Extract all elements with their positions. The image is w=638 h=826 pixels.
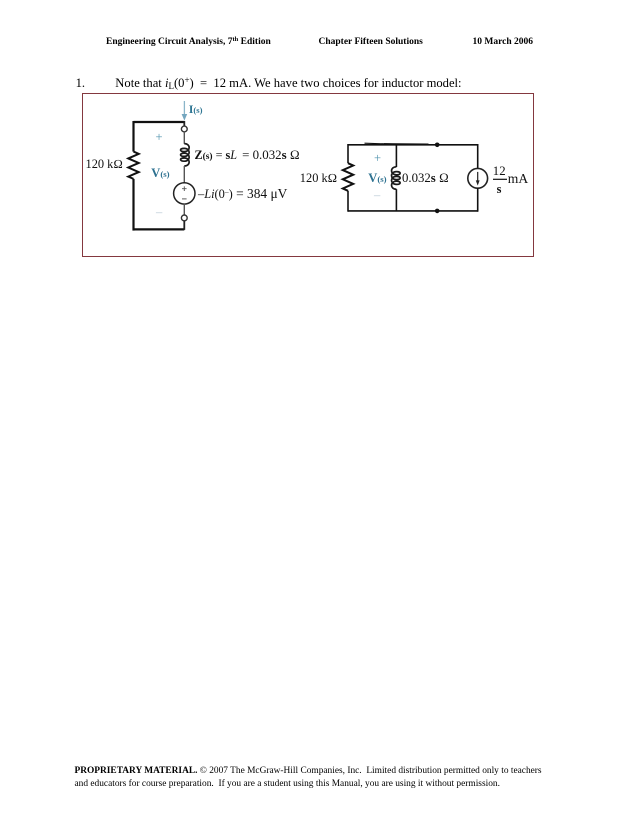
- resistor R 120k (right circuit): [343, 163, 353, 191]
- left circuit: top wire: [134, 121, 185, 123]
- problem statement: [115, 76, 461, 91]
- label V(s) (left circuit): [151, 167, 169, 180]
- inductor Z(s)=sL (left circuit): [181, 144, 190, 166]
- right circuit: middle branch upper wire: [395, 145, 397, 167]
- footer line 1: [75, 767, 542, 776]
- voltage source -Li(0-) (left circuit): [174, 183, 195, 204]
- inductor 0.032s (right circuit): [392, 167, 401, 189]
- right circuit: bottom wire: [348, 210, 478, 212]
- right circuit: right wire lower: [477, 188, 479, 212]
- label -Li(0-)=384 uV: [198, 187, 287, 200]
- left circuit: bottom wire: [134, 228, 185, 230]
- label + (right circuit): [374, 152, 381, 165]
- header: book title: [106, 37, 271, 48]
- stub terminal to bottom wire: [183, 221, 185, 230]
- label V(s) (right circuit): [368, 172, 386, 185]
- I(s) arrow into node: [183, 101, 185, 115]
- right circuit: right wire upper: [477, 144, 479, 169]
- open terminal (bottom): [181, 215, 187, 221]
- label mA: [508, 172, 528, 186]
- resistor R 120k (left circuit): [128, 152, 138, 179]
- node dot bottom: [435, 209, 440, 214]
- header: chapter title: [319, 38, 423, 48]
- label s (fraction denominator): [497, 183, 502, 195]
- right circuit: overlapping thick wire segment: [365, 143, 404, 144]
- label 120 kOhm (right circuit): [300, 172, 337, 184]
- node dot top: [435, 143, 440, 148]
- right circuit: left wire lower: [347, 191, 349, 212]
- left circuit: left wire lower segment: [132, 179, 134, 231]
- left circuit: left wire upper segment: [132, 121, 134, 152]
- label 0.032s Ohm (right circuit): [402, 172, 449, 185]
- right circuit: middle branch lower wire: [395, 189, 397, 211]
- label - (left circuit): [156, 206, 162, 219]
- current source 12/s mA: [468, 168, 488, 188]
- wire inductor to source: [183, 166, 185, 183]
- label I(s): [189, 103, 203, 115]
- wire terminal to inductor: [183, 132, 185, 144]
- wire source to bottom terminal: [183, 204, 185, 215]
- problem number 1.: [76, 77, 85, 90]
- label Z(s)=sL=0.032s Ohm: [195, 149, 300, 162]
- footer line 2: [75, 780, 500, 789]
- fraction bar of 12/s: [493, 178, 507, 180]
- right circuit: left wire upper: [347, 144, 349, 163]
- header: date: [473, 38, 534, 48]
- right circuit: top wire: [348, 144, 478, 146]
- label - (right circuit): [374, 189, 380, 202]
- left circuit: stub from top wire to terminal: [183, 121, 185, 126]
- open terminal (top): [181, 126, 187, 132]
- label 120 kOhm (left circuit): [86, 158, 123, 170]
- red figure box: [82, 93, 534, 257]
- label + (left circuit): [156, 131, 163, 144]
- label 12 (fraction numerator): [493, 165, 506, 178]
